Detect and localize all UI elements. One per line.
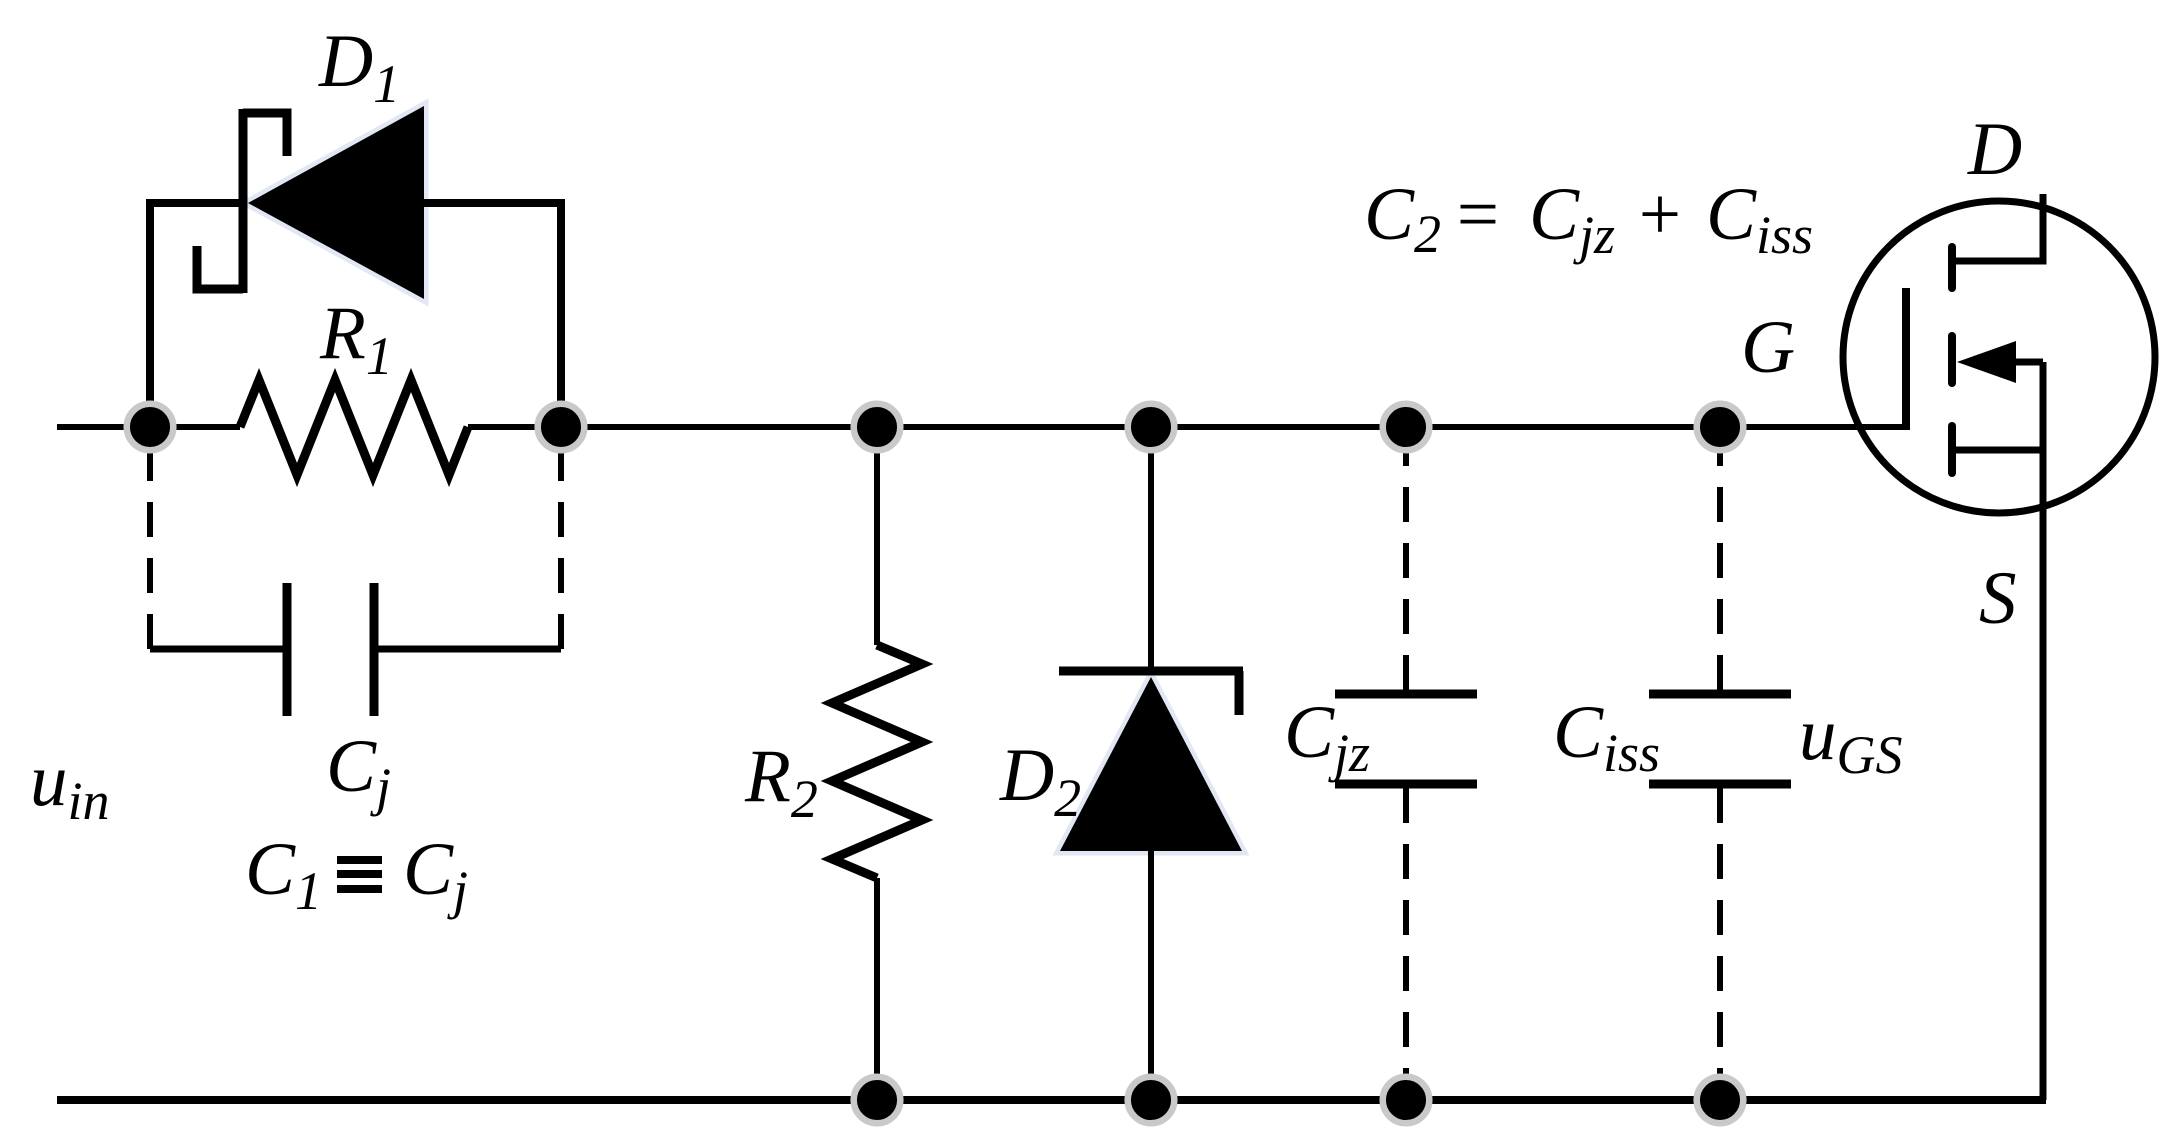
Q1 gate bar: [1902, 288, 1910, 430]
wire Q1 body arrow to source: [2012, 359, 2043, 366]
Q1 source lead: [1952, 447, 2046, 454]
svg-text:D: D: [1967, 108, 2022, 191]
wire C1 left lead: [150, 646, 287, 653]
capacitor Ciss: [1649, 694, 1791, 784]
node 8 (D2 bottom): [1128, 1077, 1175, 1124]
diode D1 halo: [248, 106, 424, 299]
D1 zener hook top: [243, 113, 287, 156]
node 5 (Cjz top): [1383, 404, 1430, 451]
wire R2 bottom lead: [874, 878, 880, 1096]
node 1 (input left): [127, 404, 174, 451]
svg-text:+: +: [1634, 173, 1685, 256]
node 2 (R1 right): [538, 404, 585, 451]
Q1 channel segment middle: [1948, 336, 1956, 383]
wire dashed Ciss bottom: [1717, 788, 1723, 1095]
svg-text:=: =: [1452, 173, 1503, 256]
wire R1 right to MOSFET gate: [468, 424, 1906, 430]
wire D1 left leg: [150, 203, 246, 430]
D1 triangle: [248, 106, 424, 299]
resistor R2: [832, 645, 922, 878]
node 6 (Ciss top / G): [1697, 404, 1744, 451]
diode D2 zener hook: [1235, 671, 1244, 715]
wire D1 anode leg: [422, 203, 561, 430]
capacitor Cjz: [1335, 694, 1477, 784]
diode D2 halo: [1060, 677, 1242, 851]
wire bottom source bus: [57, 1096, 2046, 1104]
Q1 body arrow: [1957, 341, 2016, 383]
label C1 identity: equivalence sign: [337, 860, 382, 889]
wire C1 right lead: [374, 646, 561, 653]
node 3 (R2 top): [854, 404, 901, 451]
wire D2 bottom lead: [1148, 851, 1154, 1096]
Q1 channel segment bottom: [1948, 426, 1956, 473]
D1 cathode bar: [239, 109, 248, 293]
wire R2 top lead: [874, 450, 880, 645]
wire S lead down: [2040, 362, 2047, 1100]
wire D2 top lead: [1148, 450, 1154, 671]
wire dashed C1 left: [147, 450, 153, 649]
svg-text:G: G: [1741, 306, 1795, 389]
node 7 (R2 bottom): [854, 1077, 901, 1124]
Q1 channel segment top: [1948, 247, 1956, 288]
node 9 (Cjz bottom): [1383, 1077, 1430, 1124]
capacitor C1 (Cj) plates: [287, 583, 374, 716]
node 10 (Ciss bottom): [1697, 1077, 1744, 1124]
wire dashed Cjz top: [1403, 450, 1409, 690]
diode D1 (zener, pointing left): [197, 106, 424, 299]
wire dashed Ciss top: [1717, 450, 1723, 690]
diode D2 triangle: [1060, 677, 1242, 851]
transistor Q1 MOSFET body circle: [1843, 201, 2155, 513]
Q1 drain lead: [1952, 194, 2043, 261]
diode D2 cathode bar: [1059, 667, 1243, 676]
wire input stub to R1 left: [57, 424, 240, 430]
node 4 (D2 top): [1128, 404, 1175, 451]
wire dashed Cjz bottom: [1403, 788, 1409, 1095]
resistor R1: [240, 380, 468, 475]
svg-text:S: S: [1979, 557, 2017, 640]
wire dashed C1 right: [558, 450, 564, 649]
D1 zener hook bottom: [197, 246, 243, 289]
